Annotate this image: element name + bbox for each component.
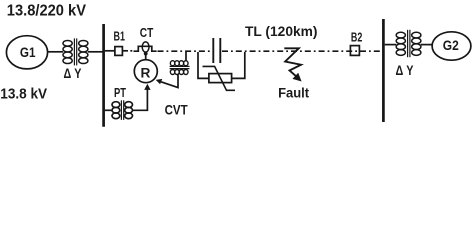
transmission line dash-dot segment 2	[222, 50, 382, 52]
CT primary bump	[134, 46, 157, 51]
svg-text:Δ Y: Δ Y	[396, 63, 414, 78]
transformer T1	[63, 38, 88, 65]
arrow PT to R	[144, 84, 150, 90]
svg-text:R: R	[141, 65, 151, 80]
svg-text:G2: G2	[443, 38, 459, 53]
svg-text:CVT: CVT	[165, 102, 189, 117]
relay R	[134, 60, 157, 83]
CVT winding	[170, 61, 190, 75]
series capacitor plate left	[212, 38, 214, 63]
wire T1 to bus B1	[88, 51, 103, 53]
wire T2 to G2	[421, 44, 432, 46]
breaker B1	[115, 47, 123, 56]
svg-text:PT: PT	[114, 86, 126, 100]
fault arrowhead	[293, 73, 302, 82]
wire G1 to T1	[48, 51, 63, 53]
MOV varistor diagonal	[203, 66, 236, 90]
transmission line dash-dot segment 1	[158, 50, 212, 52]
bus B1	[102, 24, 105, 127]
fault lightning bolt	[284, 48, 301, 76]
bus B2	[382, 19, 385, 122]
svg-text:Fault: Fault	[278, 86, 309, 101]
wire PT to relay R	[133, 90, 148, 111]
CT winding	[142, 42, 149, 52]
svg-text:G1: G1	[20, 45, 36, 60]
breaker B2	[350, 46, 359, 56]
wire bus B2 to T2	[385, 44, 397, 46]
svg-text:CT: CT	[140, 26, 154, 40]
PT winding	[112, 100, 133, 120]
wire breaker B1 stub	[122, 50, 128, 52]
svg-text:13.8/220 kV: 13.8/220 kV	[7, 3, 87, 20]
svg-text:B1: B1	[114, 30, 126, 44]
MOV branch left wire	[198, 52, 209, 78]
MOV varistor box	[209, 74, 232, 83]
transformer T2	[396, 30, 421, 57]
svg-text:B2: B2	[351, 30, 362, 44]
wire PT from bus	[105, 109, 112, 111]
series capacitor plate right	[219, 38, 221, 63]
generator G2	[432, 32, 471, 60]
generator G1	[6, 36, 47, 69]
svg-text:Δ Y: Δ Y	[64, 66, 82, 81]
wire bus B1 to breaker B1	[105, 50, 115, 52]
node CT junction	[144, 52, 148, 56]
svg-text:TL (120km): TL (120km)	[245, 23, 318, 39]
wire CVT secondary	[161, 75, 178, 88]
arrow CVT to R	[156, 79, 163, 84]
wire CT to relay R	[145, 54, 147, 61]
CVT tap wire	[185, 52, 187, 62]
MOV branch right wire	[232, 52, 245, 78]
wire dash-dot stub	[130, 50, 132, 52]
svg-text:13.8 kV: 13.8 kV	[0, 85, 48, 102]
